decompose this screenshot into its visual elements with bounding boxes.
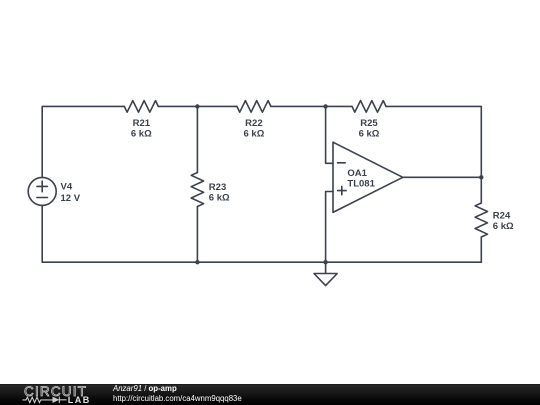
svg-text:6 kΩ: 6 kΩ: [243, 129, 264, 140]
V4 plus symbol: [37, 181, 48, 192]
op-amp inverting pin minus symbol: [338, 162, 346, 164]
wire R22 to node B: [271, 105, 352, 107]
svg-text:TL081: TL081: [347, 179, 375, 190]
logo resistor zigzag and diode: [23, 397, 67, 403]
wire R21 to node A: [158, 105, 237, 107]
svg-text:R23: R23: [209, 182, 226, 193]
svg-text:6 kΩ: 6 kΩ: [493, 221, 514, 232]
svg-text:R22: R22: [245, 118, 262, 129]
ground symbol: [314, 262, 337, 285]
wire op-amp output to right rail: [403, 176, 482, 178]
wire bottom rail: [42, 205, 481, 262]
svg-text:R25: R25: [360, 118, 378, 129]
svg-text:http://circuitlab.com/ca4wnm9q: http://circuitlab.com/ca4wnm9qqq83e: [113, 394, 242, 403]
svg-text:12 V: 12 V: [61, 193, 81, 204]
svg-text:6 kΩ: 6 kΩ: [359, 129, 380, 140]
resistor R22: [237, 101, 271, 113]
op-amp OA1 triangle: [333, 142, 403, 212]
svg-text:V4: V4: [61, 182, 73, 193]
output node junction dot: [479, 175, 483, 179]
svg-text:6 kΩ: 6 kΩ: [209, 193, 230, 204]
wire R25 to right rail top corner: [386, 106, 481, 177]
wire feedback: node B down to inverting input: [326, 106, 333, 163]
wire R24 bottom to bottom rail corner: [480, 237, 482, 262]
wire top rail: V4 top-left corner to R21: [42, 106, 124, 177]
logo diode triangle: [53, 397, 60, 403]
node B junction dot: [323, 104, 327, 108]
resistor R23: [191, 173, 203, 207]
resistor R25: [352, 101, 386, 113]
wire R23 branch from node A down to R23: [196, 106, 198, 172]
svg-text:OA1: OA1: [347, 168, 367, 179]
wire non-inverting input up from ground node: [326, 192, 333, 263]
svg-text:R24: R24: [493, 211, 511, 222]
svg-text:LAB: LAB: [68, 395, 91, 405]
resistor R21: [124, 101, 158, 113]
svg-text:Anzar91 / op-amp: Anzar91 / op-amp: [112, 384, 177, 393]
node A junction dot: [195, 104, 199, 108]
wire right rail: output node down to R24: [480, 177, 482, 203]
resistor R24: [475, 203, 487, 237]
V4 minus symbol: [37, 197, 48, 199]
ground node junction dot: [323, 260, 327, 264]
voltage source V4 circle: [28, 177, 56, 205]
junction dot R23 bottom rail: [195, 260, 199, 264]
footer bar: [0, 384, 540, 405]
svg-text:6 kΩ: 6 kΩ: [131, 129, 152, 140]
op-amp non-inverting pin plus symbol: [338, 186, 347, 194]
svg-text:R21: R21: [133, 118, 151, 129]
wire R23 bottom to bottom rail: [196, 207, 198, 263]
